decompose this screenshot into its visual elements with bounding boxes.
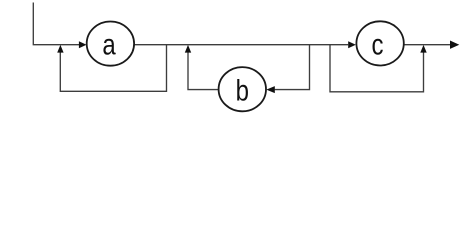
- node c ellipse: [356, 21, 403, 65]
- svg-text:c: c: [372, 27, 384, 61]
- svg-text:b: b: [236, 73, 249, 107]
- wire a-loop: [60, 45, 166, 92]
- wire main line a to c: [134, 44, 348, 46]
- arrowhead exit right-pointing: [450, 41, 459, 49]
- arrowhead into c: [348, 41, 356, 48]
- arrowhead b-merge up: [185, 45, 191, 53]
- wire b entry branch: [275, 45, 310, 90]
- arrowhead a-loop up: [57, 45, 63, 53]
- arrowhead c-bypass up: [420, 45, 426, 53]
- node a ellipse: [87, 21, 134, 65]
- wire c bypass: [330, 45, 424, 92]
- wire exit: [404, 44, 451, 46]
- node b ellipse: [219, 67, 266, 111]
- wire entry: [33, 3, 79, 45]
- wire b exit to merge: [188, 52, 219, 89]
- arrowhead into b left-pointing: [266, 86, 275, 93]
- arrowhead into a: [79, 41, 87, 48]
- svg-text:a: a: [102, 27, 116, 61]
